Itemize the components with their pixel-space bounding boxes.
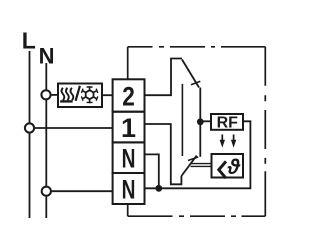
svg-text:N: N xyxy=(122,144,136,174)
wire terminal N lower to RF supply xyxy=(145,121,251,188)
wire RF tap to RF module xyxy=(200,120,211,122)
terminal block N (upper) xyxy=(113,142,145,173)
signal arrow 2 xyxy=(231,135,236,148)
RF module U1 xyxy=(211,114,243,131)
signal arrow 1 xyxy=(220,135,225,148)
switch S2 contact tick xyxy=(188,157,198,161)
relay switch S1 contact tick xyxy=(191,81,200,85)
node junction dot at RF tap xyxy=(197,118,204,125)
wire circle to appliance box xyxy=(51,94,58,96)
relay switch S1 blade xyxy=(182,60,199,88)
switch S2 blade xyxy=(181,156,196,176)
svg-text:N: N xyxy=(122,175,136,205)
wire switch contact to RF node xyxy=(199,88,201,157)
appliance box (heating/cooling load) xyxy=(58,84,102,108)
svg-text:1: 1 xyxy=(121,113,136,143)
wire terminal 2 to relay switch xyxy=(145,59,183,96)
slash separator xyxy=(76,86,80,101)
wire terminal 1 to switch S2 pivot xyxy=(145,124,182,184)
thermostat box (<&#977;) xyxy=(212,154,244,179)
node terminal circle on N rail (to appliance) xyxy=(41,90,50,99)
svg-text:L: L xyxy=(22,28,36,54)
snowflake (cooling) icon xyxy=(81,86,97,103)
svg-text:RF: RF xyxy=(217,114,239,131)
wire L circle to terminal 1 xyxy=(34,127,112,129)
terminal block N (lower) xyxy=(113,173,145,205)
wire terminal N upper to bottom rail xyxy=(145,154,159,188)
wire N circle to terminal N xyxy=(51,190,112,192)
mechanical link between switch poles xyxy=(181,84,183,156)
receiver enclosure (dash-dot border) xyxy=(128,47,266,216)
wire N rail xyxy=(45,63,47,218)
node terminal circle on N rail (to terminal N) xyxy=(42,187,51,196)
terminal block 2 xyxy=(113,79,145,111)
mechanical link S2 to thermostat (double line) xyxy=(191,164,212,167)
svg-text:ϑ: ϑ xyxy=(227,156,241,179)
terminal block 1 xyxy=(113,112,145,143)
wire L rail xyxy=(29,51,31,218)
node junction dot on N return xyxy=(155,185,162,192)
svg-text:2: 2 xyxy=(122,82,135,112)
heating icon (waves over bar) xyxy=(60,88,73,102)
wire appliance to terminal 2 xyxy=(102,94,112,96)
node terminal circle on L rail (to terminal 1) xyxy=(25,123,34,132)
